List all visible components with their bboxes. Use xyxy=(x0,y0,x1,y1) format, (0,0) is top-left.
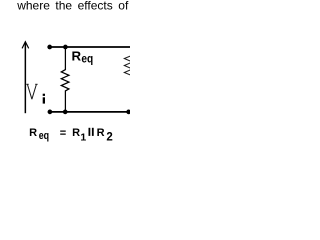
node dot bottom-middle xyxy=(63,110,68,115)
svg-text:R: R xyxy=(72,127,80,139)
top wire xyxy=(48,46,130,48)
label V (of Vi) xyxy=(26,84,37,99)
label i subscript of Vi xyxy=(43,94,45,96)
svg-text:2: 2 xyxy=(106,132,112,144)
svg-text:R: R xyxy=(29,127,37,139)
svg-text:=: = xyxy=(60,128,66,140)
resistor Req (vertical zigzag) xyxy=(61,47,69,112)
node dot bottom-left xyxy=(48,110,53,115)
resistor R2 (right, partially cropped) xyxy=(124,47,132,112)
voltage source arrow Vi shaft xyxy=(24,43,26,113)
svg-text:where the effects of: where the effects of xyxy=(16,0,129,13)
bottom wire xyxy=(48,111,130,113)
node dot bottom-right xyxy=(126,110,131,115)
svg-text:R: R xyxy=(72,49,82,64)
svg-text:eq: eq xyxy=(81,54,93,66)
node dot top-left xyxy=(47,45,52,50)
svg-text:R: R xyxy=(97,127,105,139)
voltage source arrowhead xyxy=(22,42,29,49)
svg-text:1: 1 xyxy=(80,131,86,143)
node dot top-middle xyxy=(63,45,68,50)
parallel bars xyxy=(89,128,91,136)
svg-text:eq: eq xyxy=(39,130,49,142)
